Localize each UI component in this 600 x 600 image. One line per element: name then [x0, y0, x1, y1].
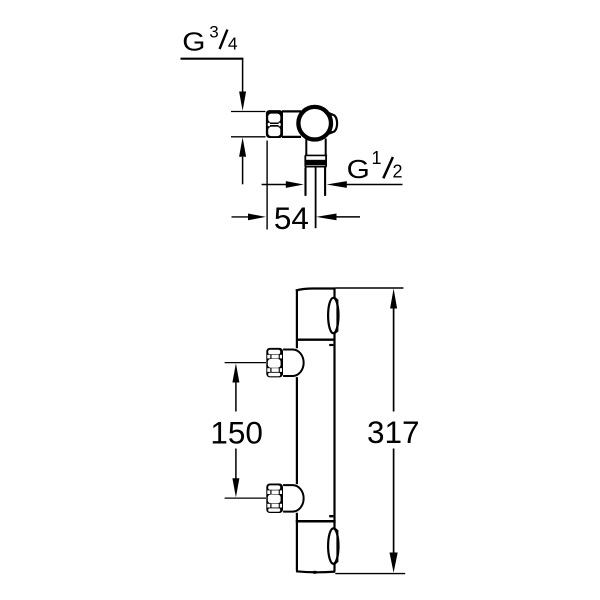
svg-text:54: 54 [274, 200, 309, 236]
svg-text:2: 2 [393, 162, 403, 182]
svg-text:G: G [182, 26, 205, 56]
svg-text:150: 150 [210, 414, 263, 450]
svg-text:4: 4 [228, 34, 238, 54]
svg-text:3: 3 [209, 23, 218, 42]
svg-text:G: G [347, 154, 370, 184]
svg-text:317: 317 [367, 414, 420, 450]
svg-text:1: 1 [372, 148, 382, 168]
